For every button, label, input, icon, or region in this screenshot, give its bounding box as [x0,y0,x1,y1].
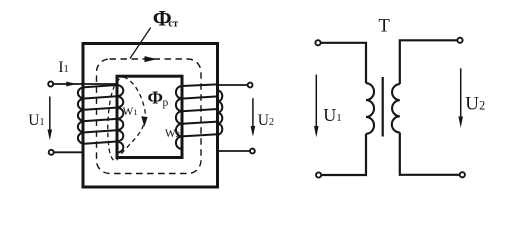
svg-text:ст: ст [168,18,179,29]
primary winding (schematic) [366,83,374,134]
current arrow I1 [66,82,76,87]
voltage arrow U1 (left diagram) [49,97,51,132]
secondary output wire (bottom right of core) [218,150,250,152]
svg-text:р: р [163,97,169,109]
primary terminal top (schematic) [315,40,320,45]
secondary terminal (bottom right) [250,149,255,154]
svg-text:I1: I1 [58,59,69,76]
secondary terminal (top right) [248,83,253,88]
svg-text:W1: W1 [123,106,138,118]
leader line to Phi_st label [130,28,151,59]
voltage arrow U2 (schematic) [460,68,462,118]
svg-text:Ф: Ф [148,87,163,107]
voltage arrow U2 (left diagram) [252,98,254,127]
secondary terminal top (schematic) [457,38,462,43]
wire turn diagonals of W2 [182,84,218,136]
primary top wire (schematic) [321,43,366,83]
primary input terminal (bottom left) [49,150,54,155]
svg-text:U2: U2 [465,93,485,114]
svg-text:U1: U1 [28,112,44,129]
transformer core (schematic) [382,77,384,137]
primary bottom wire (schematic) [322,134,366,175]
W1 outer-side loop arcs [78,87,85,144]
W1 window-side loop arcs [117,85,124,153]
winding W1 (primary coil on left limb) [78,85,123,153]
leakage flux loop Phi_p (dashed ellipse) [108,77,146,161]
main flux path Phi_st (dashed) [97,59,202,174]
winding W2 (secondary coil on right limb) [176,84,222,149]
svg-text:U2: U2 [258,112,274,129]
svg-text:W2: W2 [165,128,180,140]
W2 outer-side loop arcs [218,91,223,135]
svg-text:U1: U1 [323,105,342,125]
wire from top-left terminal to winding W1 [54,83,117,85]
svg-text:T: T [379,17,390,37]
wire turn diagonals of W1 [85,85,117,144]
voltage arrow U1 (schematic) [315,75,317,128]
secondary winding (schematic) [392,84,400,132]
flux direction arrow on Phi_st [145,56,158,62]
wire from bottom-left terminal to winding W1 [54,151,84,153]
primary terminal bottom (schematic) [316,172,321,177]
arrow on Phi_p loop [141,116,147,127]
W2 window-side loop arcs [176,86,182,149]
secondary output wire (top right of core) [218,84,248,86]
transformer core outer boundary [83,44,218,188]
secondary top wire (schematic) [400,40,457,84]
primary input terminal (top left) [48,82,53,87]
core window [117,76,182,157]
secondary terminal bottom (schematic) [460,172,465,177]
secondary bottom wire (schematic) [400,133,460,175]
